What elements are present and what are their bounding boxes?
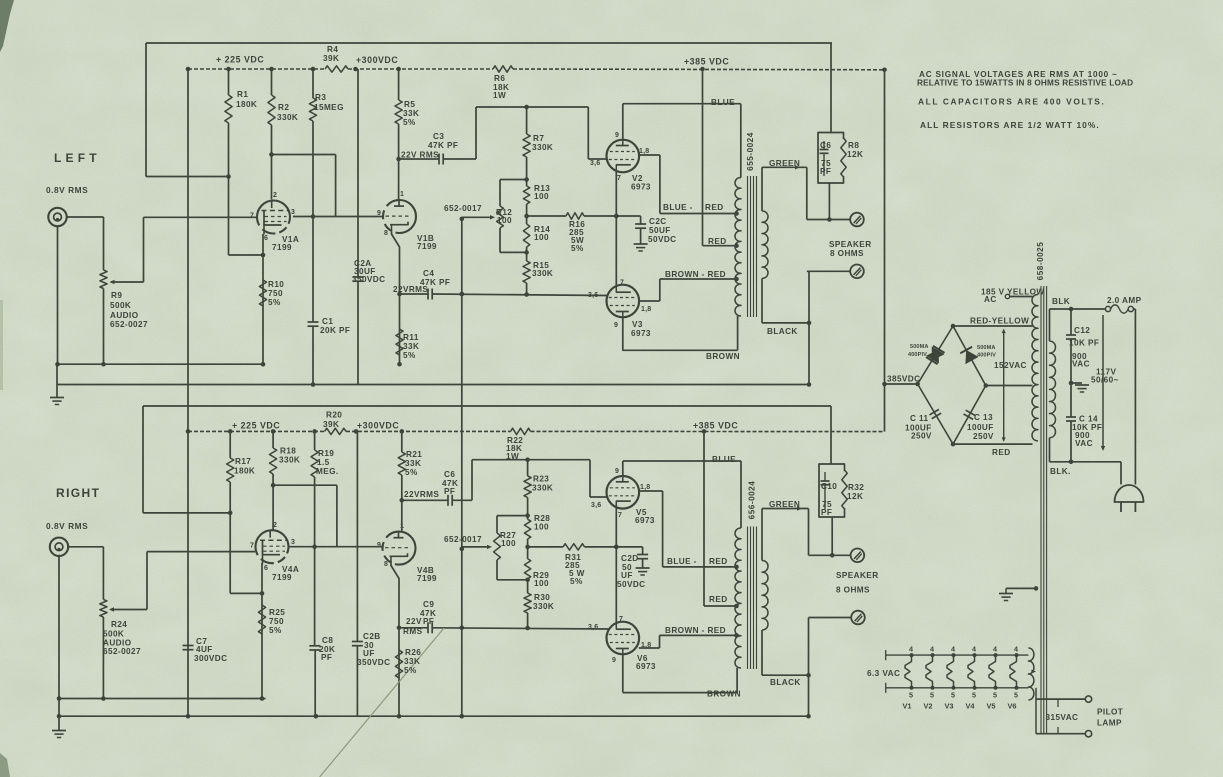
- svg-text:50VDC: 50VDC: [648, 235, 677, 244]
- svg-text:R19: R19: [318, 449, 334, 458]
- svg-text:7: 7: [620, 280, 624, 287]
- svg-text:750: 750: [269, 617, 284, 626]
- svg-text:300VDC: 300VDC: [194, 654, 227, 663]
- svg-text:6: 6: [264, 235, 268, 242]
- svg-text:PILOT: PILOT: [1097, 708, 1123, 717]
- svg-text:4: 4: [1014, 645, 1018, 654]
- svg-text:V5: V5: [987, 702, 996, 711]
- svg-text:C1: C1: [322, 317, 333, 326]
- svg-text:250V: 250V: [911, 432, 932, 441]
- svg-text:330K: 330K: [277, 113, 298, 122]
- svg-text:1,8: 1,8: [640, 484, 650, 491]
- svg-text:+ 225 VDC: + 225 VDC: [216, 55, 264, 65]
- svg-text:400PIV: 400PIV: [908, 352, 927, 358]
- svg-text:5%: 5%: [570, 577, 583, 586]
- svg-text:AC: AC: [984, 295, 997, 304]
- svg-text:1: 1: [400, 191, 404, 198]
- svg-text:PF: PF: [423, 617, 434, 626]
- svg-text:RED: RED: [705, 203, 724, 212]
- svg-text:BROWN: BROWN: [706, 352, 740, 361]
- svg-text:9: 9: [615, 468, 619, 475]
- svg-text:RED: RED: [708, 237, 727, 246]
- svg-text:R25: R25: [269, 608, 285, 617]
- svg-text:5: 5: [1014, 691, 1018, 700]
- svg-text:652-0017: 652-0017: [444, 535, 482, 544]
- svg-text:RMS: RMS: [403, 627, 423, 636]
- svg-text:4: 4: [930, 645, 934, 654]
- svg-text:100UF: 100UF: [967, 423, 994, 432]
- svg-text:R2: R2: [278, 103, 289, 112]
- svg-text:5%: 5%: [405, 468, 418, 477]
- svg-text:BLK: BLK: [1052, 297, 1070, 306]
- svg-text:152VAC: 152VAC: [994, 361, 1027, 370]
- svg-text:330K: 330K: [279, 456, 300, 465]
- svg-text:SPEAKER: SPEAKER: [836, 571, 879, 580]
- svg-text:R24: R24: [111, 620, 127, 629]
- svg-text:R30: R30: [534, 593, 550, 602]
- svg-text:2.0 AMP: 2.0 AMP: [1107, 296, 1142, 305]
- svg-text:750: 750: [268, 289, 283, 298]
- svg-text:RED: RED: [709, 557, 728, 566]
- svg-text:PF: PF: [321, 653, 332, 662]
- svg-text:7199: 7199: [417, 574, 437, 583]
- svg-text:7: 7: [619, 616, 623, 623]
- svg-text:330K: 330K: [532, 269, 553, 278]
- svg-text:VAC: VAC: [1075, 439, 1093, 448]
- svg-text:8: 8: [384, 230, 388, 237]
- svg-text:R23: R23: [533, 475, 549, 484]
- svg-text:655-0024: 655-0024: [746, 132, 755, 171]
- svg-text:AUDIO: AUDIO: [110, 311, 139, 320]
- svg-text:RELATIVE TO 15WATTS IN 8 OHMS: RELATIVE TO 15WATTS IN 8 OHMS RESISTIVE …: [917, 79, 1133, 88]
- svg-text:RIGHT: RIGHT: [56, 486, 100, 500]
- svg-text:BLACK: BLACK: [770, 678, 801, 687]
- svg-text:C2C: C2C: [649, 217, 667, 226]
- svg-text:7: 7: [618, 512, 622, 519]
- svg-text:6.3 VAC: 6.3 VAC: [867, 669, 900, 678]
- svg-text:C6: C6: [820, 141, 831, 150]
- svg-text:BLUE: BLUE: [711, 98, 735, 107]
- svg-text:+300VDC: +300VDC: [356, 55, 398, 65]
- svg-text:12K: 12K: [847, 150, 863, 159]
- svg-text:R3: R3: [315, 93, 326, 102]
- svg-text:33K: 33K: [403, 109, 419, 118]
- svg-text:1W: 1W: [493, 91, 506, 100]
- svg-text:350VDC: 350VDC: [352, 275, 385, 284]
- svg-text:47K PF: 47K PF: [428, 141, 458, 150]
- svg-text:6: 6: [264, 565, 268, 572]
- svg-text:400PIV: 400PIV: [977, 353, 996, 359]
- svg-text:7199: 7199: [272, 243, 292, 252]
- svg-text:180K: 180K: [236, 100, 257, 109]
- svg-text:+300VDC: +300VDC: [357, 421, 399, 431]
- svg-text:50/60~: 50/60~: [1091, 376, 1119, 385]
- svg-text:7199: 7199: [272, 573, 292, 582]
- svg-text:PF: PF: [444, 487, 455, 496]
- svg-text:9: 9: [377, 542, 381, 549]
- svg-text:500MA: 500MA: [977, 345, 996, 351]
- svg-text:2: 2: [273, 522, 277, 529]
- svg-text:+ 225 VDC: + 225 VDC: [232, 421, 280, 431]
- svg-text:3,6: 3,6: [588, 292, 598, 299]
- svg-text:2: 2: [273, 192, 277, 199]
- svg-text:GREEN: GREEN: [769, 500, 800, 509]
- svg-text:SPEAKER: SPEAKER: [829, 240, 872, 249]
- svg-text:9: 9: [614, 322, 618, 329]
- svg-text:6973: 6973: [631, 329, 651, 338]
- svg-text:5: 5: [951, 691, 955, 700]
- svg-text:3: 3: [291, 209, 295, 216]
- svg-text:C 13: C 13: [974, 413, 993, 422]
- svg-text:5%: 5%: [269, 626, 282, 635]
- svg-text:C 11: C 11: [910, 414, 929, 423]
- svg-text:500K: 500K: [103, 630, 124, 639]
- svg-text:385VDC: 385VDC: [887, 375, 920, 384]
- svg-text:R11: R11: [403, 333, 419, 342]
- svg-text:BLUE -: BLUE -: [663, 203, 693, 212]
- svg-text:V2: V2: [924, 702, 933, 711]
- svg-text:VAC: VAC: [1072, 360, 1090, 369]
- svg-text:+385 VDC: +385 VDC: [684, 57, 729, 67]
- svg-text:315VAC: 315VAC: [1046, 713, 1079, 722]
- svg-text:22V: 22V: [406, 617, 422, 626]
- svg-text:5: 5: [972, 691, 976, 700]
- svg-text:20K PF: 20K PF: [320, 326, 350, 335]
- svg-text:5%: 5%: [404, 666, 417, 675]
- svg-text:4: 4: [909, 645, 913, 654]
- svg-text:33K: 33K: [404, 657, 420, 666]
- svg-text:1,8: 1,8: [641, 642, 651, 649]
- svg-text:LEFT: LEFT: [54, 151, 101, 165]
- svg-text:MEG.: MEG.: [316, 467, 339, 476]
- svg-text:+385 VDC: +385 VDC: [693, 421, 738, 431]
- svg-text:PF: PF: [821, 508, 832, 517]
- svg-text:9: 9: [377, 210, 381, 217]
- svg-text:5%: 5%: [403, 351, 416, 360]
- svg-text:ALL RESISTORS ARE 1/2 WATT: ALL RESISTORS ARE 1/2 WATT 10%.: [920, 120, 1100, 130]
- svg-text:12K: 12K: [847, 492, 863, 501]
- svg-text:R32: R32: [848, 483, 864, 492]
- svg-text:C4: C4: [423, 269, 434, 278]
- svg-text:500K: 500K: [110, 301, 131, 310]
- svg-text:C2B: C2B: [363, 632, 381, 641]
- svg-text:BROWN: BROWN: [707, 690, 741, 699]
- svg-text:22VRMS: 22VRMS: [393, 285, 428, 294]
- svg-text:6973: 6973: [631, 183, 651, 192]
- svg-text:9: 9: [615, 132, 619, 139]
- svg-text:9: 9: [612, 657, 616, 664]
- svg-text:22V RMS: 22V RMS: [401, 151, 439, 160]
- svg-text:1,8: 1,8: [641, 306, 651, 313]
- svg-text:6973: 6973: [636, 662, 656, 671]
- svg-text:33K: 33K: [405, 459, 421, 468]
- svg-text:GREEN: GREEN: [769, 159, 800, 168]
- svg-text:3: 3: [291, 539, 295, 546]
- svg-text:ALL CAPACITORS ARE 400 VOL: ALL CAPACITORS ARE 400 VOLTS.: [918, 97, 1105, 107]
- svg-text:7199: 7199: [417, 242, 437, 251]
- svg-text:R21: R21: [406, 450, 422, 459]
- svg-text:50VDC: 50VDC: [617, 580, 646, 589]
- svg-text:1,8: 1,8: [639, 148, 649, 155]
- svg-text:R20: R20: [326, 411, 342, 420]
- svg-text:LAMP: LAMP: [1097, 719, 1122, 728]
- svg-text:658-0025: 658-0025: [1036, 242, 1045, 281]
- svg-text:10K PF: 10K PF: [1069, 339, 1099, 348]
- svg-text:3,6: 3,6: [591, 502, 601, 509]
- svg-text:R7: R7: [533, 134, 544, 143]
- svg-text:330K: 330K: [533, 602, 554, 611]
- svg-text:652-0017: 652-0017: [444, 204, 482, 213]
- svg-text:6973: 6973: [635, 516, 655, 525]
- svg-text:7: 7: [617, 175, 621, 182]
- svg-text:PF: PF: [820, 167, 831, 176]
- svg-text:330K: 330K: [532, 143, 553, 152]
- svg-text:100: 100: [534, 523, 549, 532]
- svg-text:R8: R8: [848, 141, 859, 150]
- svg-text:100: 100: [534, 192, 549, 201]
- svg-text:5%: 5%: [571, 244, 584, 253]
- svg-text:4: 4: [972, 645, 976, 654]
- svg-text:652-0027: 652-0027: [103, 647, 141, 656]
- svg-text:7: 7: [250, 543, 254, 550]
- svg-text:3,6: 3,6: [590, 160, 600, 167]
- svg-text:BROWN - RED: BROWN - RED: [665, 626, 726, 635]
- svg-text:RED: RED: [709, 595, 728, 604]
- svg-text:5%: 5%: [403, 118, 416, 127]
- svg-text:180K: 180K: [234, 467, 255, 476]
- svg-text:C6: C6: [444, 470, 455, 479]
- svg-text:22VRMS: 22VRMS: [404, 490, 439, 499]
- svg-text:R1: R1: [237, 90, 248, 99]
- svg-text:1W: 1W: [506, 452, 519, 461]
- svg-text:C10: C10: [821, 482, 837, 491]
- svg-text:0.8V RMS: 0.8V RMS: [46, 185, 88, 195]
- svg-text:250V: 250V: [973, 432, 994, 441]
- svg-text:R6: R6: [494, 74, 505, 83]
- svg-text:5%: 5%: [268, 298, 281, 307]
- svg-text:UF: UF: [363, 649, 375, 658]
- svg-text:RED: RED: [992, 448, 1011, 457]
- svg-text:C8: C8: [322, 636, 333, 645]
- svg-text:350VDC: 350VDC: [357, 658, 390, 667]
- svg-text:15MEG: 15MEG: [314, 103, 344, 112]
- svg-text:5: 5: [909, 691, 913, 700]
- svg-text:BLUE: BLUE: [712, 455, 736, 464]
- svg-text:33K: 33K: [403, 342, 419, 351]
- svg-text:C3: C3: [433, 132, 444, 141]
- svg-text:V3: V3: [632, 320, 643, 329]
- svg-text:652-0027: 652-0027: [110, 320, 148, 329]
- svg-text:7: 7: [250, 213, 254, 220]
- svg-text:R4: R4: [327, 45, 338, 54]
- svg-text:C12: C12: [1074, 326, 1090, 335]
- svg-text:330K: 330K: [532, 484, 553, 493]
- svg-text:BLK.: BLK.: [1050, 467, 1071, 476]
- svg-text:C9: C9: [423, 600, 434, 609]
- svg-text:5: 5: [930, 691, 934, 700]
- svg-text:50UF: 50UF: [649, 226, 671, 235]
- svg-text:R26: R26: [405, 648, 421, 657]
- svg-text:RED-YELLOW: RED-YELLOW: [970, 317, 1029, 326]
- svg-text:BLACK: BLACK: [767, 327, 798, 336]
- svg-text:V1: V1: [903, 702, 912, 711]
- svg-text:0.8V RMS: 0.8V RMS: [46, 521, 88, 531]
- svg-text:R5: R5: [404, 100, 415, 109]
- svg-text:656-0024: 656-0024: [748, 481, 757, 520]
- svg-text:4UF: 4UF: [196, 645, 213, 654]
- svg-text:5: 5: [993, 691, 997, 700]
- svg-text:100: 100: [497, 216, 512, 225]
- svg-text:100: 100: [534, 233, 549, 242]
- svg-text:500MA: 500MA: [910, 344, 929, 350]
- svg-text:BLUE -: BLUE -: [667, 557, 697, 566]
- svg-text:8 OHMS: 8 OHMS: [830, 249, 864, 258]
- svg-text:8 OHMS: 8 OHMS: [836, 586, 870, 595]
- svg-text:C2D: C2D: [621, 554, 639, 563]
- svg-text:BROWN - RED: BROWN - RED: [665, 270, 726, 279]
- svg-text:39K: 39K: [323, 420, 339, 429]
- svg-text:UF: UF: [621, 571, 633, 580]
- svg-text:R17: R17: [235, 457, 251, 466]
- svg-text:4: 4: [993, 645, 997, 654]
- svg-text:1.5: 1.5: [317, 458, 330, 467]
- svg-text:100: 100: [534, 579, 549, 588]
- svg-text:39K: 39K: [323, 54, 339, 63]
- svg-text:8: 8: [384, 561, 388, 568]
- svg-text:R9: R9: [111, 291, 122, 300]
- svg-text:V4: V4: [966, 702, 976, 711]
- svg-text:V3: V3: [945, 702, 954, 711]
- svg-text:4: 4: [951, 645, 955, 654]
- svg-text:3,6: 3,6: [588, 624, 598, 631]
- svg-text:100: 100: [501, 539, 516, 548]
- svg-text:R18: R18: [280, 447, 296, 456]
- svg-text:R10: R10: [268, 280, 284, 289]
- svg-text:1: 1: [400, 523, 404, 530]
- svg-text:V6: V6: [1008, 702, 1017, 711]
